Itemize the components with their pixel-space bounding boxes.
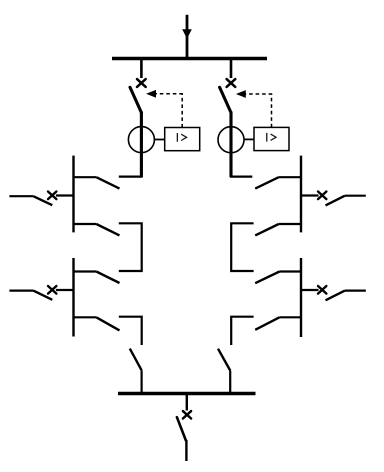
wire: outgoing feeder drop [186,394,188,411]
wire: bottom-left switch to bottom busbar [141,370,143,394]
circuit breaker blade (right bay) [220,87,231,112]
wire: S4 contact down (left inner column) [119,317,142,345]
wire: right bus to F1 x-contact [300,194,319,196]
wire: left bay conductor through CT [140,112,143,178]
overcurrent relay I> (left) [165,128,200,151]
disconnector S4R stub wire [280,316,303,318]
disconnector S4 stub wire [73,316,97,318]
feeder F2 right blade [326,291,345,301]
wire: right bay conductor through CT [229,112,232,178]
disconnector S2 stub wire [73,223,97,225]
open contact mark x (feeder F1 left) [48,192,56,200]
disconnector S4R blade [255,317,279,330]
disconnector S1 stub wire [73,176,97,178]
wire: S1 contact to left CT column [119,176,143,178]
disconnector S1R stub wire [279,176,302,178]
bottom-right switch blade [218,349,230,371]
right section busbar (upper) [300,156,302,233]
wire: S4R contact down (right inner column) [231,317,253,345]
disconnector S3 blade [96,272,119,284]
open contact mark x (feeder F1 right) [318,192,326,200]
wire: link S2R contact to S3R contact (right inner column) [231,223,253,271]
wire: right breaker bay drop [230,59,233,79]
wire: outgoing feeder tail [185,440,187,461]
left section busbar (lower) [72,258,74,337]
feeder F1 right blade [326,196,345,206]
wire: link S2 contact to S3 contact (left inner column) [119,223,142,271]
wire: S1R contact to right CT column [230,176,252,178]
open contact mark x (right bay) [227,79,236,87]
disconnector S3 stub wire [73,270,97,272]
disconnector S4 blade [96,317,119,330]
disconnector S2R blade [255,224,279,235]
feeder F1 right outer wire [345,195,366,197]
feeder F1 left outer wire [9,195,33,197]
wire: left breaker bay drop [140,59,143,79]
dashed trip control line with arrowhead (right) [245,94,272,127]
feeder F1 left blade [33,196,52,205]
outgoing feeder switch blade [177,417,186,440]
wire: bottom-right switch to bottom busbar [229,371,231,395]
disconnector S1 blade [96,177,119,188]
top busbar [112,57,267,60]
disconnector S3R stub wire [280,270,303,272]
wire: right bus to F2 x-contact [300,289,319,291]
disconnector S3R blade [255,272,279,284]
bottom-left switch blade [130,349,142,371]
disconnector S1R blade [255,177,279,188]
wire: F2 x-contact to left bus [56,289,75,291]
disconnector S2R stub wire [279,223,302,225]
right section busbar (lower) [300,258,302,337]
feeder F2 left blade [33,291,52,300]
disconnector S2 blade [96,224,119,235]
bottom busbar [118,392,256,395]
feeder F2 right outer wire [345,290,366,292]
open contact mark x (left bay) [137,79,146,87]
open contact mark x (outgoing feeder) [183,411,191,418]
open contact mark x (feeder F2 right) [318,286,326,294]
wire: F1 x-contact to left bus [56,194,75,196]
open contact mark x (feeder F2 left) [48,286,56,294]
feeder F2 left outer wire [9,290,33,292]
left section busbar (upper) [72,156,74,233]
dashed trip control line with arrowhead (left) [156,94,183,128]
incoming feeder wire with arrow [182,15,192,59]
wire: CT to relay (left) [154,139,164,141]
wire: CT to relay (right) [244,138,254,140]
circuit breaker blade (left bay) [130,87,141,112]
overcurrent relay I> (right) [254,127,289,150]
current transformer CT (right) [218,127,244,153]
current transformer CT (left) [128,127,154,153]
